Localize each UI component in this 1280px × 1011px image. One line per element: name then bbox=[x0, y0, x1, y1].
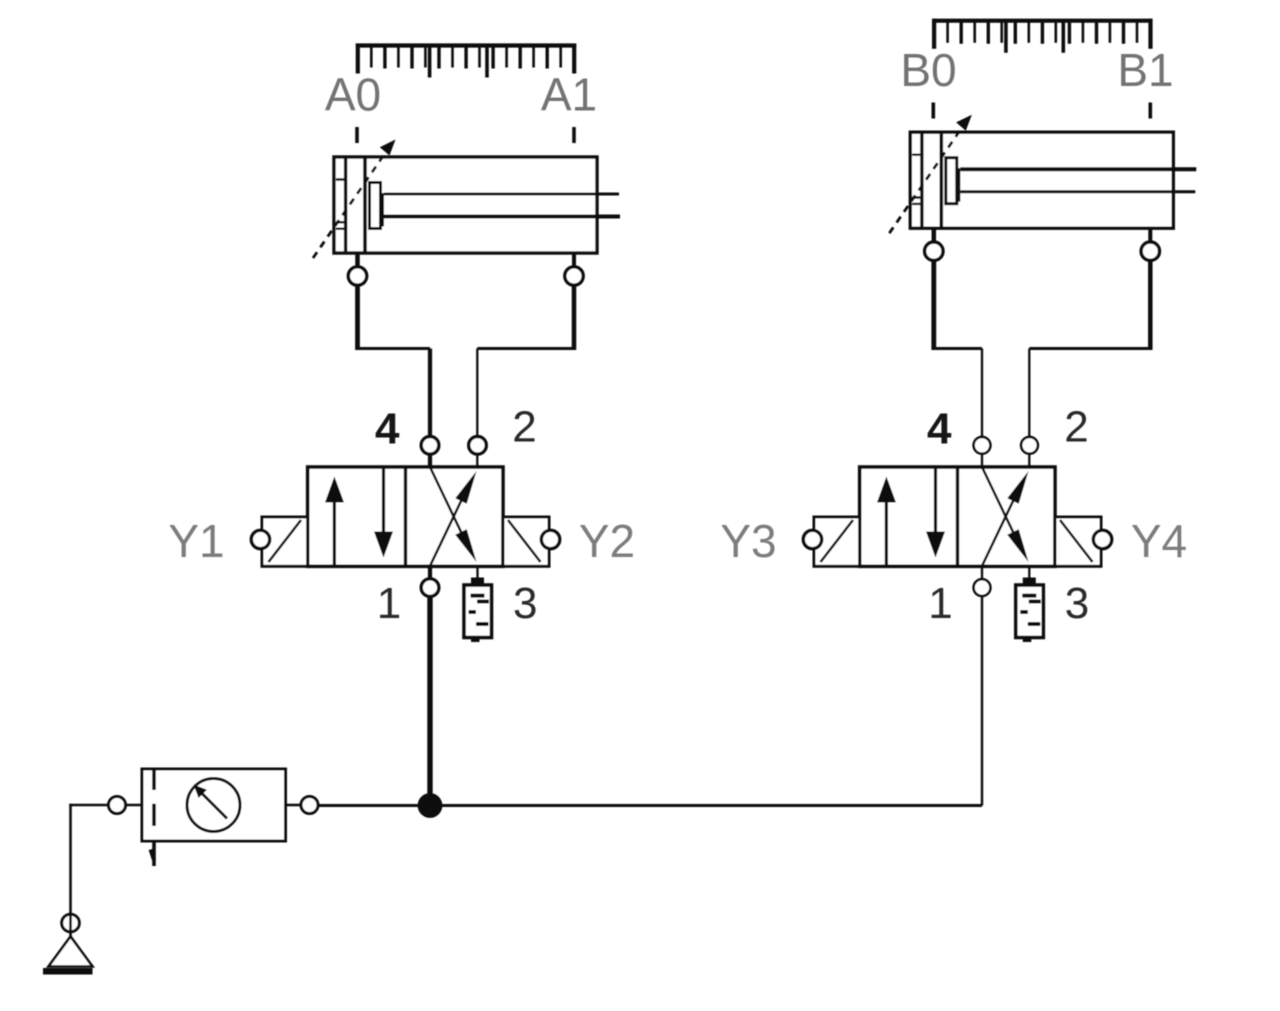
valve V2 port 2 circle bbox=[1021, 437, 1038, 454]
wire cylinder A left port bbox=[355, 253, 360, 267]
solenoid coil Y2 bbox=[503, 517, 549, 566]
pilot circle Y1 bbox=[251, 530, 269, 548]
svg-text:Y3: Y3 bbox=[720, 515, 776, 567]
svg-text:3: 3 bbox=[513, 579, 537, 628]
wire source to service unit bbox=[69, 804, 108, 913]
sensor mark dash A0 bbox=[355, 127, 359, 143]
svg-text:4: 4 bbox=[375, 405, 400, 454]
valve V2 body bbox=[860, 467, 1055, 566]
sensor mark dash A1 bbox=[572, 127, 576, 143]
cylinder A piston bbox=[365, 159, 384, 252]
cylinder B cushioning arrow bbox=[889, 115, 972, 234]
pilot circle Y4 bbox=[1093, 530, 1111, 548]
valve V2 crossed position arrows bbox=[982, 467, 1029, 566]
svg-text:1: 1 bbox=[928, 579, 952, 628]
wire cylinder A right port bbox=[572, 253, 576, 267]
gauge adjust arrow bbox=[194, 785, 228, 819]
sensor mark dash B0 bbox=[931, 103, 935, 119]
service unit adjust tick bbox=[151, 850, 155, 861]
wire A-right to valve1 port2 bbox=[477, 285, 575, 437]
valve V1 left position arrows bbox=[325, 467, 393, 566]
wire A-left to valve1 port4 bbox=[356, 285, 430, 437]
distance scale ruler B bbox=[932, 19, 1152, 53]
valve V2 port 4 circle bbox=[974, 437, 991, 454]
svg-text:Y2: Y2 bbox=[579, 515, 635, 567]
wire cylinder B right port bbox=[1148, 228, 1152, 242]
svg-text:B0: B0 bbox=[900, 44, 956, 96]
svg-text:A1: A1 bbox=[541, 69, 597, 121]
svg-text:1: 1 bbox=[377, 579, 401, 628]
service unit regulator dashed line bbox=[152, 769, 156, 866]
distance scale ruler A bbox=[356, 44, 576, 78]
valve V1 port 4 stub bbox=[428, 454, 432, 467]
valve V2 port 1 stub bbox=[981, 566, 983, 579]
wire B-left to valve2 port4 bbox=[932, 260, 982, 436]
valve V2 port 2 stub bbox=[1028, 454, 1030, 467]
svg-text:A0: A0 bbox=[325, 69, 381, 121]
cylinder A cushioning arrow bbox=[313, 140, 396, 259]
svg-text:Y4: Y4 bbox=[1131, 515, 1187, 567]
wire cylinder B left port bbox=[932, 228, 937, 242]
svg-text:B1: B1 bbox=[1117, 44, 1173, 96]
connection circle cylinder B right bbox=[1141, 242, 1159, 260]
svg-text:2: 2 bbox=[1064, 403, 1088, 452]
service unit outlet stub bbox=[286, 804, 302, 807]
compressed air source symbol bbox=[43, 913, 93, 975]
svg-text:3: 3 bbox=[1065, 579, 1089, 628]
solenoid coil Y4 bbox=[1055, 517, 1101, 566]
silencer on V1 port 3 bbox=[464, 566, 492, 642]
service unit U1 body bbox=[142, 769, 286, 841]
valve V1 port 2 circle bbox=[469, 437, 487, 455]
cylinder A piston rod bbox=[384, 194, 620, 217]
junction node bbox=[418, 793, 443, 818]
pilot circle Y2 bbox=[541, 530, 559, 548]
valve V1 port 2 stub bbox=[476, 454, 478, 467]
cylinder B piston rod bbox=[960, 169, 1196, 192]
valve V1 port 4 circle bbox=[421, 437, 439, 455]
cylinder B piston bbox=[941, 134, 960, 227]
valve V1 port 1 stub bbox=[428, 566, 432, 579]
supply wire V1 port1 to junction bbox=[427, 596, 432, 806]
valve V2 left position arrows bbox=[877, 467, 945, 566]
svg-text:Y1: Y1 bbox=[168, 515, 224, 567]
connection circle cylinder A left bbox=[348, 267, 366, 285]
solenoid coil Y3 bbox=[814, 517, 860, 566]
pressure gauge circle bbox=[187, 779, 240, 832]
svg-text:2: 2 bbox=[512, 403, 536, 452]
solenoid coil Y1 bbox=[262, 517, 308, 566]
wire B-right to valve2 port2 bbox=[1029, 260, 1152, 436]
pilot circle Y3 bbox=[803, 530, 821, 548]
compressed air source connection circle bbox=[62, 914, 80, 932]
main pressure line bbox=[318, 804, 982, 807]
valve V2 port 4 stub bbox=[981, 454, 983, 467]
service unit inlet stub bbox=[126, 804, 143, 807]
valve V1 body bbox=[308, 467, 503, 566]
valve V1 port 1 circle bbox=[421, 579, 439, 597]
silencer on V2 port 3 bbox=[1016, 566, 1044, 642]
valve V1 crossed position arrows bbox=[430, 467, 477, 566]
svg-text:4: 4 bbox=[927, 405, 952, 454]
service unit inlet circle bbox=[109, 797, 126, 814]
wire V2 port1 down bbox=[981, 596, 983, 805]
sensor mark dash B1 bbox=[1149, 103, 1153, 119]
cylinder B body bbox=[910, 132, 1173, 228]
cylinder A body bbox=[334, 157, 597, 253]
service unit outlet circle bbox=[301, 797, 318, 814]
connection circle cylinder B left bbox=[925, 242, 943, 260]
valve V2 port 1 circle bbox=[974, 579, 991, 596]
connection circle cylinder A right bbox=[565, 267, 583, 285]
